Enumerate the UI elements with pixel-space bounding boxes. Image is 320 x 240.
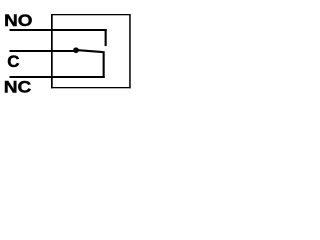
svg-text:NO: NO — [4, 11, 33, 30]
wire NC terminal — [10, 76, 105, 78]
wire NO terminal — [10, 29, 107, 31]
NC fixed contact riser — [103, 51, 105, 78]
svg-text:NC: NC — [4, 78, 32, 96]
switch arm (common pole, resting on NC) — [77, 50, 103, 52]
wire C terminal — [10, 50, 77, 52]
NO fixed contact riser — [105, 29, 107, 46]
junction dot on C wire — [73, 47, 79, 53]
relay enclosure box — [51, 14, 131, 88]
svg-text:C: C — [7, 52, 19, 71]
